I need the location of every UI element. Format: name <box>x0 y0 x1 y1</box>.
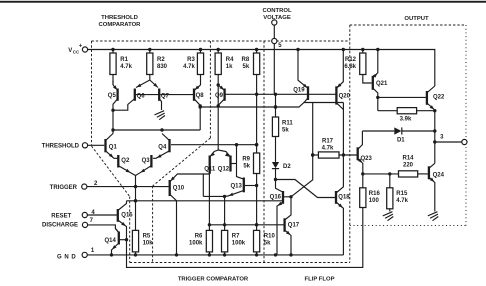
label Q10 <box>173 186 185 192</box>
wire comparator bus <box>127 199 284 202</box>
svg-text:5k: 5k <box>243 64 250 70</box>
resistor R3 <box>197 50 203 86</box>
pin 4 label <box>91 210 95 216</box>
label D1 <box>397 137 405 143</box>
svg-text:5k: 5k <box>282 127 289 133</box>
wire trigger input <box>87 185 169 188</box>
label CONTROL VOLTAGE <box>262 8 292 21</box>
svg-text:R9: R9 <box>242 156 250 162</box>
transistor Q20 <box>336 50 343 110</box>
label R16 100 <box>369 191 381 204</box>
transistor Q3 <box>136 155 152 176</box>
svg-text:10k: 10k <box>143 240 154 246</box>
svg-text:V: V <box>68 48 72 54</box>
svg-text:Q12: Q12 <box>218 167 230 173</box>
label R17 4.7k <box>322 138 334 151</box>
label Q12 <box>218 167 230 173</box>
pin TRIGGER terminal <box>82 184 87 189</box>
diode D1 <box>362 127 436 134</box>
svg-text:5k: 5k <box>264 240 271 246</box>
pin DISCHARGE terminal <box>82 222 87 227</box>
svg-text:FLIP FLOP: FLIP FLOP <box>305 277 335 283</box>
pin 5 label <box>278 43 282 49</box>
svg-text:Q24: Q24 <box>433 172 445 178</box>
label Q5 <box>108 93 117 99</box>
dashed box output top edge <box>350 24 466 26</box>
label Q7 <box>161 94 170 100</box>
svg-text:4.7k: 4.7k <box>396 198 408 204</box>
wire Q5-Q6 mirror link <box>113 99 134 110</box>
svg-text:R5: R5 <box>143 233 151 239</box>
wire Q22 emitter / output column <box>434 111 436 164</box>
wire control voltage to node 5 <box>273 25 275 38</box>
svg-text:R15: R15 <box>396 191 408 197</box>
transistor Q13 <box>225 145 257 197</box>
transistor Q8 <box>160 85 202 130</box>
svg-text:1k: 1k <box>226 64 233 70</box>
svg-text:Q4: Q4 <box>158 144 167 150</box>
transistor Q9 <box>218 85 224 105</box>
label Q21 <box>376 81 388 87</box>
svg-text:R7: R7 <box>232 233 240 239</box>
label R14 220 <box>402 155 414 168</box>
label R6 100k <box>189 233 203 246</box>
top border rule <box>0 1 486 3</box>
dashed box flip flop right edge <box>349 25 351 263</box>
label FLIP FLOP <box>305 277 335 283</box>
pin RESET terminal <box>82 212 87 217</box>
pin 3 label <box>440 135 444 141</box>
label OUTPUT <box>404 16 429 22</box>
wire Q4 base reference <box>171 143 258 146</box>
resistor R11 <box>272 94 278 162</box>
transistor Q15 <box>118 201 127 255</box>
wire output <box>433 140 462 143</box>
svg-text:Q17: Q17 <box>288 222 300 228</box>
label R5 10k <box>143 233 154 246</box>
label Q3 <box>142 158 151 164</box>
transistor Q6 <box>135 80 159 101</box>
diode D2 <box>272 162 282 192</box>
dotted box output bottom edge <box>350 225 466 227</box>
transistor Q19 <box>298 50 308 103</box>
label Q16 <box>270 194 282 200</box>
svg-text:R2: R2 <box>157 57 165 63</box>
svg-text:3.9k: 3.9k <box>400 117 412 123</box>
wire discharge to Q14 collector <box>88 225 119 232</box>
transistor Q5 <box>111 81 117 134</box>
svg-text:Q18: Q18 <box>338 194 350 200</box>
pin RESET label <box>51 214 71 220</box>
svg-text:100k: 100k <box>232 240 246 246</box>
label Q1 <box>109 144 118 150</box>
label Q9 <box>215 93 224 99</box>
pin TRIGGER label <box>50 185 78 191</box>
svg-text:VOLTAGE: VOLTAGE <box>263 15 291 21</box>
svg-text:4.7k: 4.7k <box>183 64 195 70</box>
svg-text:Q6: Q6 <box>137 94 146 100</box>
resistor R13 3.9k <box>378 108 437 114</box>
transistor Q16 <box>277 191 293 255</box>
resistor R8 <box>254 50 260 75</box>
label Q15 <box>121 212 133 218</box>
transistor Q4 <box>153 134 170 159</box>
svg-text:1: 1 <box>91 248 95 254</box>
resistor R12 <box>360 50 372 84</box>
svg-text:R8: R8 <box>242 57 250 63</box>
svg-text:COMPARATOR: COMPARATOR <box>99 22 142 28</box>
wire threshold input <box>88 144 105 146</box>
svg-text:100: 100 <box>369 198 380 204</box>
wire flip flop cross coupling A <box>276 180 336 198</box>
svg-text:DISCHARGE: DISCHARGE <box>42 223 78 229</box>
transistor Q1 <box>106 134 118 159</box>
svg-text:R4: R4 <box>226 57 234 63</box>
svg-text:Q21: Q21 <box>376 81 388 87</box>
label Q11 <box>204 167 216 173</box>
dashed box threshold comparator <box>92 41 350 263</box>
svg-text:TRIGGER COMPARATOR: TRIGGER COMPARATOR <box>178 277 249 283</box>
label Q17 <box>288 222 300 228</box>
ground below R15 <box>383 212 394 221</box>
wire Q15 emitter to R16 return <box>127 208 363 268</box>
pin THRESHOLD label <box>42 144 80 150</box>
svg-text:4.7k: 4.7k <box>322 145 334 151</box>
label Q22 <box>433 95 445 101</box>
label Q2 <box>121 158 130 164</box>
svg-text:Q16: Q16 <box>270 194 282 200</box>
transistor Q11 <box>210 150 219 174</box>
resistor R15 <box>387 174 393 212</box>
svg-text:Q9: Q9 <box>215 93 224 99</box>
label D2 <box>283 164 291 170</box>
label R4 1k <box>226 57 234 70</box>
resistor R14 <box>363 171 428 177</box>
resistor R2 <box>147 50 153 81</box>
resistor R7 <box>222 196 228 255</box>
transistor Q22 <box>427 86 435 111</box>
svg-text:Q1: Q1 <box>109 144 118 150</box>
svg-text:Q2: Q2 <box>121 158 130 164</box>
label Q24 <box>433 172 445 178</box>
svg-text:R10: R10 <box>264 233 276 239</box>
svg-text:830: 830 <box>157 64 168 70</box>
pin 7 label <box>90 218 94 224</box>
svg-text:Q3: Q3 <box>142 158 151 164</box>
svg-text:Q15: Q15 <box>121 212 133 218</box>
svg-text:R3: R3 <box>187 57 195 63</box>
wire R4 to Q11 Q12 emitters <box>217 75 220 151</box>
transistor Q24 <box>429 163 435 211</box>
pin CONTROL VOLTAGE terminal <box>272 20 277 25</box>
svg-text:Q5: Q5 <box>108 93 117 99</box>
label R11 5k <box>282 120 293 133</box>
dotted box output right edge <box>465 25 467 226</box>
svg-text:TRIGGER: TRIGGER <box>50 185 78 191</box>
transistor Q21 <box>373 50 380 111</box>
svg-text:D1: D1 <box>397 137 405 143</box>
svg-text:CONTROL: CONTROL <box>262 8 292 14</box>
wire reset input <box>87 214 117 216</box>
svg-text:R11: R11 <box>282 120 293 126</box>
node Vcc rail <box>88 48 435 86</box>
svg-text:G N D: G N D <box>57 255 76 261</box>
transistor Q18 <box>336 103 345 255</box>
pin Vcc label <box>68 44 83 55</box>
node 5 circle <box>272 38 277 43</box>
pin DISCHARGE label <box>42 223 78 229</box>
label THRESHOLD COMPARATOR <box>99 15 142 28</box>
resistor R10 <box>254 230 260 255</box>
svg-text:220: 220 <box>403 162 414 168</box>
resistor R6 <box>206 170 212 255</box>
transistor Q23 <box>358 131 365 176</box>
wire Q9 base reference line <box>225 93 336 96</box>
dashed box trigger comparator / flip flop bottom <box>130 262 350 264</box>
pin OUTPUT terminal <box>462 139 467 144</box>
svg-text:Q22: Q22 <box>433 95 445 101</box>
svg-text:R1: R1 <box>120 57 128 63</box>
label Q14 <box>104 238 116 244</box>
resistor R1 <box>110 50 116 86</box>
svg-text:RESET: RESET <box>51 214 71 220</box>
label 3.9k <box>400 117 412 123</box>
dashed box flip flop left edge <box>263 41 265 263</box>
svg-text:R6: R6 <box>195 233 203 239</box>
pin 2 label <box>94 181 98 187</box>
wire Q17 base line <box>209 223 284 226</box>
label R15 4.7k <box>396 191 408 204</box>
label R9 5k <box>242 156 250 169</box>
ground below Q24 <box>428 212 439 221</box>
label Q23 <box>361 156 373 162</box>
transistor Q12 <box>218 150 236 172</box>
svg-text:Q19: Q19 <box>293 88 305 94</box>
node GND rail <box>87 253 343 256</box>
pin 1 label <box>91 248 95 254</box>
label R3 4.7k <box>183 57 195 70</box>
label R12 6.8k <box>344 57 356 70</box>
wire trigger comparator output <box>203 195 226 198</box>
svg-text:R12: R12 <box>345 57 357 63</box>
svg-text:Q23: Q23 <box>361 156 373 162</box>
label Q20 <box>339 93 351 99</box>
resistor R16 <box>360 174 366 208</box>
wire control voltage line <box>273 44 275 95</box>
transistor Q7 <box>150 80 162 110</box>
transistor Q14 <box>112 229 129 255</box>
label R7 100k <box>232 233 246 246</box>
svg-text:THRESHOLD: THRESHOLD <box>101 15 138 21</box>
svg-text:5: 5 <box>278 43 282 49</box>
svg-text:5k: 5k <box>243 163 250 169</box>
label Q13 <box>230 184 242 190</box>
pin Vcc terminal <box>82 47 87 52</box>
ground below Q7 <box>155 111 166 120</box>
resistor R4 <box>215 50 221 75</box>
pin THRESHOLD terminal <box>82 143 87 148</box>
wire Q2 Q3 emitters to R5 column <box>134 176 137 231</box>
wire Q21 to Q22 base <box>378 96 426 98</box>
label Q8 <box>196 93 205 99</box>
label TRIGGER COMPARATOR <box>178 277 249 283</box>
svg-text:Q13: Q13 <box>230 184 242 190</box>
svg-text:Q14: Q14 <box>104 238 116 244</box>
wire threshold comparator output <box>200 103 343 109</box>
svg-text:R16: R16 <box>369 191 381 197</box>
transistor Q2 <box>118 155 135 176</box>
resistor R5 <box>132 230 138 255</box>
svg-text:Q10: Q10 <box>173 186 185 192</box>
label R10 5k <box>264 233 276 246</box>
label R8 5k <box>242 57 250 70</box>
resistor R9 <box>254 75 260 231</box>
svg-text:R17: R17 <box>322 138 334 144</box>
svg-text:100k: 100k <box>189 240 203 246</box>
svg-text:D2: D2 <box>283 164 291 170</box>
wire flip flop cross coupling B <box>291 103 314 197</box>
svg-text:CC: CC <box>73 49 80 54</box>
svg-text:4.7k: 4.7k <box>120 64 132 70</box>
svg-text:Q20: Q20 <box>339 93 351 99</box>
pin GND terminal <box>82 252 87 257</box>
svg-text:R14: R14 <box>402 155 414 161</box>
svg-text:7: 7 <box>90 218 94 224</box>
label Q19 <box>293 88 305 94</box>
resistor R17 <box>311 152 357 158</box>
svg-text:THRESHOLD: THRESHOLD <box>42 144 80 150</box>
label Q18 <box>338 194 350 200</box>
label R1 4.7k <box>120 57 132 70</box>
svg-text:Q11: Q11 <box>204 167 216 173</box>
label Q6 <box>137 94 146 100</box>
transistor Q17 <box>285 197 291 255</box>
svg-text:3: 3 <box>440 135 444 141</box>
label Q4 <box>158 144 167 150</box>
svg-text:Q8: Q8 <box>196 93 205 99</box>
svg-text:OUTPUT: OUTPUT <box>404 16 429 22</box>
wire Q1 Q4 collector link <box>113 128 200 131</box>
label R2 830 <box>157 57 168 70</box>
transistor Q10 <box>170 174 210 255</box>
svg-text:6.8k: 6.8k <box>344 64 356 70</box>
pin GND label <box>57 255 76 261</box>
